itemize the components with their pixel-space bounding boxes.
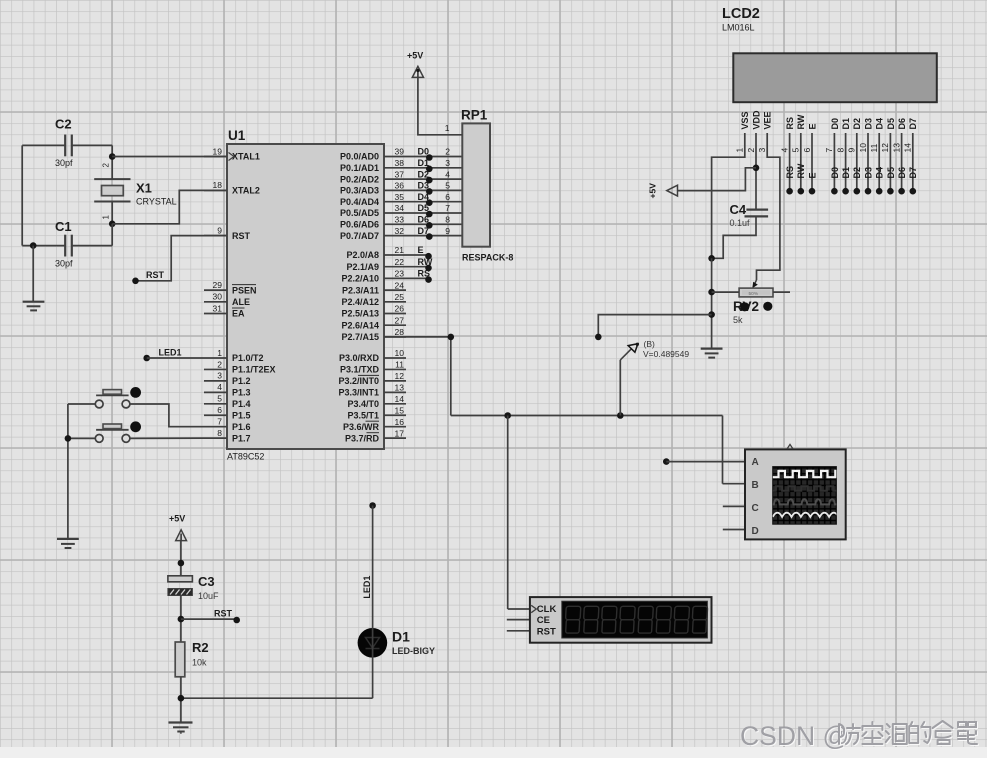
U1 pin 32 P0.7/AD7 bbox=[340, 226, 404, 241]
svg-text:33: 33 bbox=[395, 215, 405, 225]
wire VDD branch to +5V arrow bbox=[678, 168, 757, 191]
svg-text:RESPACK-8: RESPACK-8 bbox=[462, 253, 513, 263]
svg-text:10k: 10k bbox=[192, 658, 207, 668]
svg-text:LED1: LED1 bbox=[159, 348, 182, 358]
U1 pin 39 P0.0/AD0 bbox=[340, 147, 404, 162]
svg-text:CRYSTAL: CRYSTAL bbox=[136, 197, 177, 207]
svg-text:11: 11 bbox=[869, 143, 879, 152]
node D2 bbox=[426, 177, 433, 184]
svg-text:P0.0/AD0: P0.0/AD0 bbox=[340, 152, 379, 162]
svg-text:RS: RS bbox=[785, 117, 795, 130]
microcontroller U1 AT89C52 bbox=[227, 128, 384, 462]
U1 pin 24 P2.3/A11 bbox=[342, 280, 406, 295]
svg-text:10: 10 bbox=[858, 143, 868, 153]
wire crystal bottom to C1 bbox=[111, 224, 113, 246]
U1 pin 9 RST bbox=[204, 225, 251, 240]
svg-text:D1: D1 bbox=[392, 629, 410, 645]
node rail-net bbox=[708, 311, 715, 318]
svg-text:P1.4: P1.4 bbox=[232, 399, 251, 409]
svg-text:E: E bbox=[807, 172, 817, 178]
wire button2 left bbox=[68, 437, 95, 439]
clock mark XTAL1 bbox=[229, 153, 235, 161]
crystal X1 bbox=[94, 157, 176, 224]
node RW end bbox=[798, 188, 805, 195]
node rail-C4 bbox=[708, 255, 715, 262]
svg-text:D3: D3 bbox=[863, 118, 873, 130]
LCD pin 14 D7 label bbox=[903, 118, 919, 153]
svg-text:4: 4 bbox=[217, 382, 222, 392]
wire ground rail vertical bbox=[711, 258, 713, 348]
node RS bbox=[425, 276, 432, 283]
node clock-probe bbox=[617, 412, 624, 419]
LED D1 LED-BIGY bbox=[358, 628, 435, 658]
svg-text:+5V: +5V bbox=[407, 51, 423, 61]
svg-text:CSDN @: CSDN @ bbox=[740, 721, 849, 751]
LCD pin 3 VEE label bbox=[757, 111, 773, 152]
U1 pin 28 P2.7/A15 bbox=[341, 327, 406, 342]
wire button1 right to P1.6 bbox=[130, 404, 204, 427]
U1 pin 34 P0.5/AD5 bbox=[340, 203, 404, 218]
wire RP1 pin 1 to +5V bbox=[418, 77, 462, 135]
power +5V (top) bbox=[407, 51, 424, 78]
node D1 end bbox=[842, 188, 849, 195]
node buttons common bbox=[65, 435, 72, 442]
svg-text:30: 30 bbox=[213, 292, 223, 302]
wire LCD VSS to ground rail bbox=[712, 133, 745, 258]
svg-text:16: 16 bbox=[395, 417, 405, 427]
LCD pin 10 D3 label bbox=[858, 118, 874, 153]
U1 pin 35 P0.4/AD4 bbox=[340, 192, 404, 207]
resistor pack RP1 RESPACK-8 bbox=[461, 108, 513, 263]
svg-text:37: 37 bbox=[395, 169, 405, 179]
svg-text:C4: C4 bbox=[730, 202, 747, 217]
push button 1 bbox=[95, 387, 141, 408]
wire buttons common vertical bbox=[67, 404, 69, 539]
wire button2 right to P1.7 bbox=[130, 437, 204, 439]
svg-text:4: 4 bbox=[779, 148, 789, 153]
svg-text:P1.0/T2: P1.0/T2 bbox=[232, 353, 264, 363]
U1 pin 21 P2.0/A8 bbox=[346, 245, 404, 260]
ground below buttons bbox=[57, 539, 79, 548]
svg-text:V=0.489549: V=0.489549 bbox=[643, 349, 689, 359]
node P2.7 corner bbox=[448, 334, 455, 341]
wire LCD RW bbox=[796, 133, 806, 191]
wire C1 right to crystal bottom bbox=[72, 245, 112, 247]
wire RV2 right stub bbox=[773, 291, 790, 293]
svg-text:U1: U1 bbox=[228, 128, 246, 143]
svg-text:36: 36 bbox=[395, 181, 405, 191]
wire LED bottom to R2 node bbox=[181, 657, 373, 698]
U1 pin 16 P3.6/WR bbox=[343, 417, 406, 432]
svg-text:LED-BIGY: LED-BIGY bbox=[392, 646, 435, 656]
svg-text:10: 10 bbox=[395, 348, 405, 358]
node E bbox=[425, 253, 432, 260]
svg-text:12: 12 bbox=[395, 371, 405, 381]
svg-text:6: 6 bbox=[445, 192, 450, 202]
svg-text:7: 7 bbox=[824, 148, 834, 153]
svg-text:3: 3 bbox=[445, 158, 450, 168]
svg-text:R2: R2 bbox=[192, 640, 209, 655]
svg-text:P3.5/T1: P3.5/T1 bbox=[347, 410, 379, 420]
svg-text:P2.0/A8: P2.0/A8 bbox=[346, 250, 379, 260]
oscilloscope bbox=[745, 444, 846, 539]
node clock-7seg bbox=[504, 412, 511, 419]
LCD pin 4 RS label bbox=[779, 117, 795, 153]
node above C3 bbox=[178, 560, 185, 567]
svg-text:13: 13 bbox=[395, 383, 405, 393]
node D6 bbox=[426, 222, 433, 229]
svg-text:RST: RST bbox=[537, 627, 556, 638]
wire R2 to ground bbox=[180, 677, 182, 723]
U1 pin 30 ALE bbox=[204, 292, 250, 307]
node RS end bbox=[786, 188, 793, 195]
svg-text:RW: RW bbox=[796, 114, 806, 129]
svg-text:P0.2/AD2: P0.2/AD2 bbox=[340, 174, 379, 184]
svg-text:+5V: +5V bbox=[648, 183, 658, 199]
U1 pin 7 P1.6 bbox=[204, 417, 251, 432]
svg-text:LM016L: LM016L bbox=[722, 23, 755, 33]
svg-text:P2.2/A10: P2.2/A10 bbox=[341, 274, 379, 284]
svg-text:P2.5/A13: P2.5/A13 bbox=[341, 309, 379, 319]
svg-text:6: 6 bbox=[217, 405, 222, 415]
CSDN watermark bbox=[740, 721, 978, 752]
potentiometer RV2 5k bbox=[733, 288, 773, 325]
node crystal pin2 bbox=[109, 153, 116, 160]
svg-text:5: 5 bbox=[217, 394, 222, 404]
U1 pin 17 P3.7/RD bbox=[345, 428, 406, 443]
node VDD junction bbox=[753, 165, 760, 172]
svg-text:D1: D1 bbox=[841, 118, 851, 130]
wire RV2 left bbox=[712, 291, 740, 293]
wire LCD VEE to RV2 wiper bbox=[752, 133, 780, 288]
svg-text:C1: C1 bbox=[55, 219, 72, 234]
svg-text:28: 28 bbox=[395, 327, 405, 337]
wire C1 left bbox=[22, 245, 65, 247]
node D7 end bbox=[910, 188, 917, 195]
svg-text:P2.1/A9: P2.1/A9 bbox=[346, 262, 379, 272]
node RST tap bbox=[178, 616, 185, 623]
svg-text:P3.2/INT0: P3.2/INT0 bbox=[338, 376, 379, 386]
svg-text:0.1uf: 0.1uf bbox=[730, 218, 751, 228]
svg-text:RS: RS bbox=[785, 166, 795, 179]
svg-text:AT89C52: AT89C52 bbox=[227, 452, 264, 462]
svg-text:C2: C2 bbox=[55, 117, 72, 132]
svg-text:50%: 50% bbox=[749, 291, 759, 297]
node D5 end bbox=[887, 188, 894, 195]
LCD pin 7 D0 label bbox=[824, 118, 840, 153]
svg-text:P0.4/AD4: P0.4/AD4 bbox=[340, 197, 379, 207]
svg-text:9: 9 bbox=[445, 226, 450, 236]
wire left vertical C2-C1 bbox=[21, 145, 23, 245]
svg-text:CLK: CLK bbox=[537, 604, 557, 615]
svg-text:E: E bbox=[418, 245, 424, 255]
svg-text:7: 7 bbox=[445, 203, 450, 213]
capacitor C1 bbox=[55, 219, 73, 269]
svg-text:2: 2 bbox=[101, 163, 110, 168]
wire LCD RS bbox=[785, 133, 795, 191]
wire 7seg CE stub bbox=[507, 619, 531, 621]
net LED1 start bbox=[369, 502, 376, 509]
wire C2 left to frame bbox=[22, 144, 65, 146]
U1 pin 13 P3.3/INT1 bbox=[338, 383, 406, 398]
wire P0.5 to RP1 / net D5 bbox=[384, 203, 462, 213]
svg-text:D3: D3 bbox=[863, 167, 873, 179]
node RW bbox=[425, 265, 432, 272]
svg-text:D4: D4 bbox=[875, 118, 885, 130]
svg-text:D2: D2 bbox=[852, 118, 862, 130]
svg-text:9: 9 bbox=[847, 148, 857, 153]
svg-text:31: 31 bbox=[213, 303, 223, 313]
wire XTAL1 bbox=[112, 156, 227, 158]
LCD pin 1 VSS label bbox=[735, 111, 751, 152]
svg-text:VSS: VSS bbox=[740, 111, 750, 129]
svg-text:D6: D6 bbox=[897, 118, 907, 130]
wire clock net to 7seg CLK bbox=[508, 416, 532, 610]
U1 pin 6 P1.5 bbox=[204, 405, 251, 420]
capacitor C4 bbox=[730, 202, 769, 228]
wire P0.7 to RP1 / net D7 bbox=[384, 226, 462, 236]
svg-text:P2.6/A14: P2.6/A14 bbox=[341, 320, 379, 330]
svg-text:30pf: 30pf bbox=[55, 158, 73, 168]
wire C2 right to crystal top bbox=[72, 145, 112, 156]
LCD pin 9 D2 label bbox=[847, 118, 863, 153]
wire +5V to C3 bbox=[180, 541, 182, 576]
wire LCD D2 bbox=[852, 133, 862, 191]
U1 pin 37 P0.2/AD2 bbox=[340, 169, 404, 184]
LCD LCD2 LM016L bbox=[722, 6, 937, 102]
U1 pin 3 P1.2 bbox=[204, 371, 251, 386]
wire LCD D5 bbox=[886, 133, 896, 191]
U1 pin 2 P1.1/T2EX bbox=[204, 359, 276, 374]
wire LCD E bbox=[807, 133, 817, 191]
svg-text:B: B bbox=[752, 480, 759, 491]
svg-text:1: 1 bbox=[445, 123, 450, 133]
svg-text:LCD2: LCD2 bbox=[722, 6, 760, 22]
svg-text:D0: D0 bbox=[830, 167, 840, 179]
wire button1 left bbox=[68, 403, 95, 405]
voltage probe B bbox=[620, 339, 689, 416]
node D7 bbox=[426, 233, 433, 240]
U1 pin 22 P2.1/A9 bbox=[346, 257, 404, 272]
svg-text:RST: RST bbox=[214, 609, 233, 619]
node crystal pin1 bbox=[109, 221, 116, 228]
U1 pin 31 EA bbox=[204, 303, 245, 318]
U1 pin 12 P3.2/INT0 bbox=[338, 371, 406, 386]
net label LED1 (P1.0) bbox=[143, 348, 204, 362]
node D1 bbox=[426, 166, 433, 173]
LCD pin 11 D4 label bbox=[869, 118, 885, 153]
svg-text:D7: D7 bbox=[908, 167, 918, 179]
svg-text:P3.4/T0: P3.4/T0 bbox=[347, 399, 379, 409]
U1 pin 26 P2.5/A13 bbox=[341, 304, 406, 319]
ground below R2 bbox=[169, 723, 193, 734]
svg-text:P2.4/A12: P2.4/A12 bbox=[341, 297, 379, 307]
U1 pin 14 P3.4/T0 bbox=[347, 394, 406, 409]
svg-text:RST: RST bbox=[146, 270, 165, 280]
svg-text:14: 14 bbox=[395, 394, 405, 404]
svg-text:CE: CE bbox=[537, 615, 550, 626]
svg-text:P1.6: P1.6 bbox=[232, 422, 251, 432]
svg-text:8: 8 bbox=[445, 215, 450, 225]
wire P0.2 to RP1 / net D2 bbox=[384, 169, 462, 179]
wire P2.2 net RS bbox=[384, 269, 430, 279]
svg-text:21: 21 bbox=[395, 245, 405, 255]
wire LCD D7 bbox=[908, 133, 918, 191]
svg-text:11: 11 bbox=[395, 360, 404, 370]
svg-text:15: 15 bbox=[395, 405, 405, 415]
node D2 end bbox=[854, 188, 861, 195]
wire LCD D0 bbox=[830, 133, 840, 191]
svg-text:D4: D4 bbox=[875, 167, 885, 179]
svg-text:19: 19 bbox=[213, 146, 223, 156]
wire XTAL2 bbox=[112, 190, 227, 223]
power +5V (C3) bbox=[169, 514, 187, 541]
svg-text:9: 9 bbox=[217, 225, 222, 235]
wire LCD D1 bbox=[841, 133, 851, 191]
U1 pin 15 P3.5/T1 bbox=[347, 405, 406, 420]
LCD pin 12 D5 label bbox=[880, 118, 896, 153]
LCD pin 6 E label bbox=[802, 123, 818, 152]
svg-text:ALE: ALE bbox=[232, 297, 250, 307]
svg-text:P1.5: P1.5 bbox=[232, 410, 251, 420]
node D0 bbox=[426, 154, 433, 161]
node wiper net end bbox=[595, 334, 602, 341]
U1 pin 27 P2.6/A14 bbox=[341, 315, 406, 330]
node D5 bbox=[426, 211, 433, 218]
U1 pin 23 P2.2/A10 bbox=[341, 269, 404, 284]
node E end bbox=[809, 188, 816, 195]
svg-text:P3.3/INT1: P3.3/INT1 bbox=[338, 388, 379, 398]
U1 pin 4 P1.3 bbox=[204, 382, 251, 397]
resistor R2 10k bbox=[175, 640, 208, 677]
svg-text:5: 5 bbox=[445, 181, 450, 191]
ground below C1 bbox=[23, 246, 45, 311]
svg-text:+5V: +5V bbox=[169, 514, 185, 524]
svg-text:12: 12 bbox=[880, 143, 890, 153]
LCD pin 2 VDD label bbox=[746, 110, 762, 153]
wire P0.4 to RP1 / net D4 bbox=[384, 192, 462, 202]
svg-text:A: A bbox=[752, 457, 759, 468]
svg-text:P0.3/AD3: P0.3/AD3 bbox=[340, 186, 379, 196]
svg-text:2: 2 bbox=[217, 359, 222, 369]
wire P2.7 to clock net bbox=[384, 337, 451, 416]
svg-text:C: C bbox=[752, 503, 759, 514]
U1 pin 36 P0.3/AD3 bbox=[340, 181, 404, 196]
node D3 bbox=[426, 188, 433, 195]
svg-text:32: 32 bbox=[395, 226, 405, 236]
svg-text:P0.1/AD1: P0.1/AD1 bbox=[340, 163, 379, 173]
LCD pin 5 RW label bbox=[791, 114, 807, 152]
svg-text:1: 1 bbox=[101, 215, 110, 220]
wire P0.3 to RP1 / net D3 bbox=[384, 181, 462, 191]
net RST stub bbox=[181, 609, 240, 624]
svg-text:13: 13 bbox=[891, 143, 901, 153]
wire scope channel A bbox=[663, 458, 745, 465]
wire RST to U1 pin 9 bbox=[136, 236, 228, 281]
node D4 end bbox=[876, 188, 883, 195]
node D3 end bbox=[865, 188, 872, 195]
svg-text:24: 24 bbox=[395, 280, 405, 290]
U1 pin 33 P0.6/AD6 bbox=[340, 215, 404, 230]
node RST terminal bbox=[132, 278, 139, 285]
svg-text:38: 38 bbox=[395, 158, 405, 168]
wire LCD D3 bbox=[863, 133, 873, 191]
U1 pin 19 XTAL1 bbox=[204, 146, 260, 161]
svg-text:2: 2 bbox=[746, 148, 756, 153]
wire LCD D6 bbox=[897, 133, 907, 191]
svg-text:34: 34 bbox=[395, 203, 405, 213]
svg-text:P3.7/RD: P3.7/RD bbox=[345, 433, 380, 443]
svg-text:P0.7/AD7: P0.7/AD7 bbox=[340, 231, 379, 241]
wire P2.0 net E bbox=[384, 245, 428, 255]
LCD pin 8 D1 label bbox=[835, 118, 851, 153]
svg-text:D2: D2 bbox=[852, 167, 862, 179]
svg-text:RP1: RP1 bbox=[461, 108, 488, 123]
capacitor C2 bbox=[55, 117, 73, 169]
wire P2.1 net RW bbox=[384, 257, 433, 267]
U1 pin 29 PSEN bbox=[204, 280, 257, 295]
svg-text:P2.3/A11: P2.3/A11 bbox=[342, 285, 379, 295]
svg-text:LED1: LED1 bbox=[362, 576, 372, 599]
svg-text:(B): (B) bbox=[644, 339, 656, 349]
ground below RV2 rail bbox=[701, 349, 723, 358]
svg-text:1: 1 bbox=[217, 348, 222, 358]
svg-text:39: 39 bbox=[395, 147, 405, 157]
wire LCD VDD down bbox=[755, 133, 757, 210]
wire wiper net to stub bbox=[598, 315, 711, 337]
svg-text:D7: D7 bbox=[908, 118, 918, 130]
svg-text:30pf: 30pf bbox=[55, 259, 73, 269]
svg-text:14: 14 bbox=[903, 143, 913, 153]
svg-text:10uF: 10uF bbox=[198, 591, 219, 601]
U1 pin 1 P1.0/T2 bbox=[204, 348, 264, 363]
svg-text:P3.0/RXD: P3.0/RXD bbox=[339, 353, 380, 363]
svg-text:P1.3: P1.3 bbox=[232, 388, 251, 398]
svg-text:XTAL2: XTAL2 bbox=[232, 186, 260, 196]
svg-text:22: 22 bbox=[395, 257, 405, 267]
svg-text:5: 5 bbox=[791, 148, 801, 153]
svg-text:C3: C3 bbox=[198, 574, 215, 589]
wire LED1 vertical bbox=[372, 506, 374, 631]
svg-text:RW: RW bbox=[796, 163, 806, 178]
svg-text:3: 3 bbox=[217, 371, 222, 381]
U1 pin 10 P3.0/RXD bbox=[339, 348, 406, 363]
U1 pin 5 P1.4 bbox=[204, 394, 251, 409]
svg-text:P0.6/AD6: P0.6/AD6 bbox=[340, 220, 379, 230]
svg-text:4: 4 bbox=[445, 169, 450, 179]
wire 7seg RST stub bbox=[507, 630, 531, 632]
svg-text:P1.2: P1.2 bbox=[232, 376, 251, 386]
svg-text:5k: 5k bbox=[733, 315, 743, 325]
node D0 end bbox=[831, 188, 838, 195]
wire P0.1 to RP1 / net D1 bbox=[384, 158, 462, 168]
svg-text:D1: D1 bbox=[841, 167, 851, 179]
wire scope channel C stub bbox=[723, 505, 745, 507]
push button 2 bbox=[95, 421, 141, 442]
svg-text:P3.1/TXD: P3.1/TXD bbox=[340, 365, 380, 375]
wire P0.0 to RP1 / net D0 bbox=[384, 147, 462, 157]
svg-text:8: 8 bbox=[217, 428, 222, 438]
node rail-RV2 bbox=[708, 289, 715, 296]
svg-text:35: 35 bbox=[395, 192, 405, 202]
svg-text:D0: D0 bbox=[830, 118, 840, 130]
svg-text:E: E bbox=[807, 123, 817, 129]
svg-text:8: 8 bbox=[835, 148, 845, 153]
wire LCD D4 bbox=[875, 133, 885, 191]
svg-text:17: 17 bbox=[395, 428, 405, 438]
svg-text:25: 25 bbox=[395, 292, 405, 302]
svg-text:RST: RST bbox=[232, 231, 251, 241]
